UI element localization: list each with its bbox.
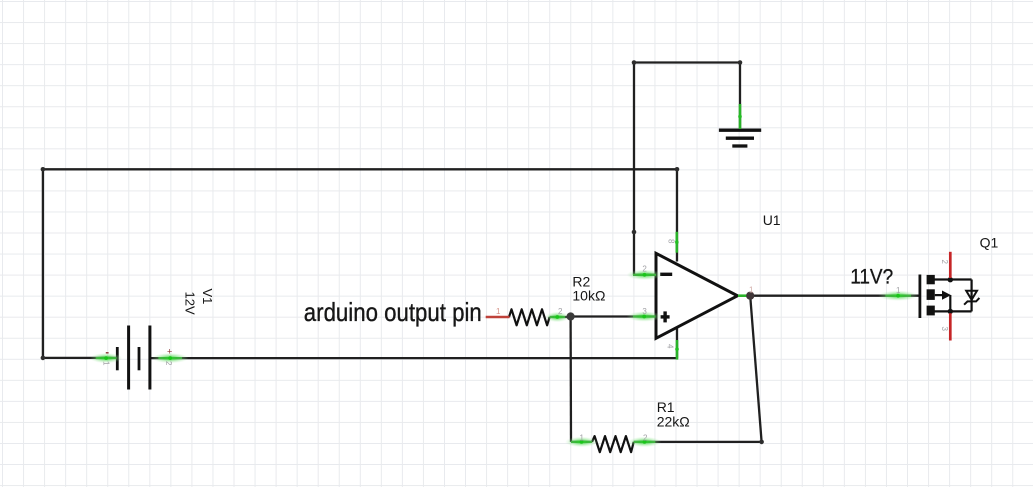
- junction dot at R2/pin3/R1 node: [567, 312, 575, 320]
- wire: top rail between inverting-input riser and ground drop: [634, 61, 740, 63]
- mosfet source junction dot: [948, 309, 953, 314]
- ground bar 3: [732, 144, 747, 147]
- svg-text:Q1: Q1: [980, 235, 999, 251]
- Q1 body bar: [927, 289, 935, 300]
- mosfet red pin 2 (drain, up): [949, 252, 952, 278]
- battery V1: [117, 326, 150, 390]
- svg-text:1: 1: [496, 307, 501, 316]
- wire: R1 left leg: [571, 441, 592, 443]
- resistor R2 zigzag: [509, 309, 550, 325]
- svg-text:1: 1: [749, 285, 754, 294]
- green leg: R1 pin 1: [571, 441, 592, 443]
- mosfet arrow stem: [935, 294, 943, 296]
- wire: pin2 stub: [633, 274, 656, 276]
- svg-text:2: 2: [940, 260, 949, 265]
- green leg: battery pin 2: [158, 357, 182, 359]
- bend dot top rail left: [632, 60, 637, 65]
- mosfet drain junction dot: [948, 277, 953, 282]
- bend dot top-left corner: [41, 167, 46, 172]
- op-amp U1 triangle: [656, 253, 738, 338]
- battery V1 negative plate (cell 2): [138, 347, 141, 370]
- green leg: op-amp pin 8: [675, 232, 678, 253]
- wire: ground drop: [739, 63, 741, 129]
- svg-text:4: 4: [665, 344, 674, 349]
- Q1 source bar: [927, 306, 935, 316]
- wire: left rail vertical: [42, 169, 44, 358]
- bend dot bottom right of R1: [759, 440, 764, 445]
- svg-text:2: 2: [164, 361, 173, 366]
- zener bar: [964, 298, 979, 305]
- plus horizontal stroke: [661, 315, 670, 318]
- op-amp minus sign: [660, 273, 672, 276]
- wire: junction down to R1: [569, 317, 572, 442]
- green leg: op-amp output pin 1: [738, 294, 747, 297]
- Q1 drain bar: [927, 275, 935, 284]
- wire: R2 junction to pin3: [571, 315, 656, 317]
- wire: op-amp output to mosfet gate: [738, 295, 919, 297]
- svg-text:2: 2: [642, 264, 647, 273]
- svg-text:10kΩ: 10kΩ: [572, 287, 605, 303]
- battery V1 negative plate (cell 1): [116, 347, 119, 370]
- wire: R2 right leg to junction: [550, 316, 571, 318]
- bend dot bottom-left corner: [41, 356, 46, 361]
- wire: pin4 riser: [676, 327, 678, 358]
- bend dot on inverting riser: [632, 230, 637, 235]
- zener triangle: [966, 291, 977, 300]
- battery V1 positive plate (cell 1): [127, 326, 130, 390]
- green leg: battery pin 1: [96, 357, 117, 359]
- svg-text:2: 2: [643, 433, 648, 442]
- green leg: op-amp pin 4: [676, 340, 679, 360]
- battery V1 positive plate (cell 2): [148, 326, 151, 390]
- svg-text:1: 1: [102, 361, 111, 366]
- ground bar 1: [719, 129, 761, 132]
- svg-text:V112V: V112V: [183, 289, 215, 315]
- wire: diagonal feedback from op-amp output down to R1: [750, 296, 761, 442]
- mosfet arrow-to-source vertical: [949, 295, 951, 311]
- green leg: ground: [739, 104, 742, 129]
- svg-text:8: 8: [666, 239, 675, 244]
- wire: R1 right leg to bend: [634, 441, 762, 443]
- svg-text:U1: U1: [763, 212, 781, 228]
- green leg: op-amp pin 2: [633, 274, 656, 276]
- bend dot top rail right: [738, 60, 743, 65]
- small pin-number labels: [102, 239, 949, 442]
- svg-text:+: +: [167, 347, 172, 357]
- wire: long rail y=169 from left corner to pin8 drop: [43, 168, 677, 170]
- resistor R1 zigzag: [592, 436, 634, 452]
- wire: bottom-left rail to battery: [43, 357, 117, 359]
- plus vertical stroke: [663, 311, 666, 322]
- op-amp plus sign: [661, 311, 670, 322]
- green leg: R1 pin 2: [634, 441, 656, 443]
- mosfet body zener diode vertical: [970, 280, 972, 312]
- wire: pin8 drop: [676, 169, 678, 261]
- ground: [719, 130, 761, 146]
- wire: inverting input riser (x=634): [633, 63, 635, 275]
- junction dot at op-amp output node: [746, 292, 754, 300]
- green leg: mosfet gate pin 1: [885, 295, 911, 297]
- battery minus mark: [106, 352, 109, 354]
- svg-text:1: 1: [896, 286, 901, 295]
- battery polarity marks: [167, 347, 172, 357]
- mosfet source arrowhead: [942, 291, 951, 300]
- ground bar 2: [726, 137, 754, 140]
- svg-text:3: 3: [940, 327, 949, 332]
- svg-text:arduino output pin: arduino output pin: [304, 297, 482, 327]
- svg-text:3: 3: [642, 307, 647, 316]
- svg-text:22kΩ: 22kΩ: [657, 413, 690, 429]
- svg-text:11V?: 11V?: [850, 266, 893, 289]
- transistor Q1 channel bars: [927, 275, 935, 316]
- wire: battery plus to op-amp pin4: [151, 357, 677, 359]
- svg-text:1: 1: [580, 433, 585, 442]
- mosfet source horizontal: [934, 310, 972, 312]
- svg-text:2: 2: [558, 307, 563, 316]
- green leg: R2 pin 2: [550, 316, 565, 318]
- resistor R2 red leg (pin 1, unconnected): [486, 316, 510, 319]
- green leg: op-amp pin 3: [633, 315, 656, 317]
- mosfet red pin 3 (source, down): [949, 313, 952, 340]
- mosfet Q1 gate line: [919, 275, 922, 319]
- bend dot rail end above pin8: [675, 167, 680, 172]
- mosfet drain horizontal: [934, 278, 972, 280]
